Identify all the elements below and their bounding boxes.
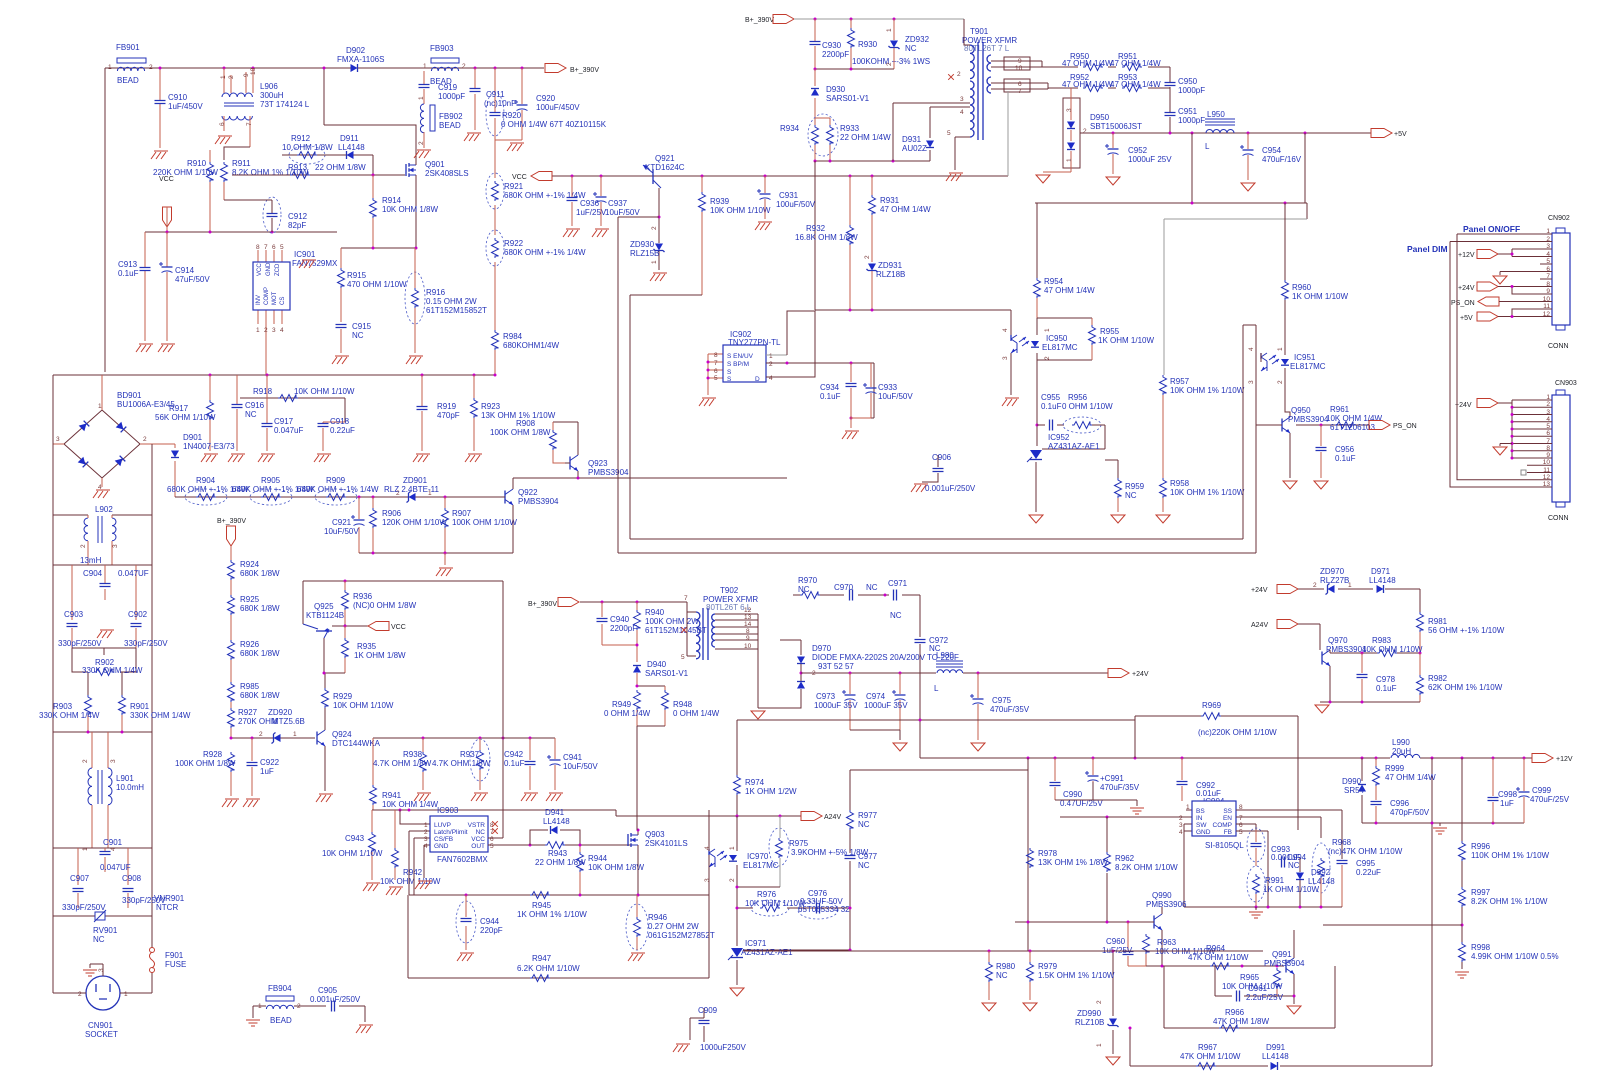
wire R967 row — [1130, 758, 1432, 1066]
svg-text:1K OHM 1/8W: 1K OHM 1/8W — [354, 651, 406, 660]
resistor R975 in ellipse — [769, 816, 869, 887]
svg-text:NC: NC — [476, 829, 486, 836]
svg-text:9: 9 — [746, 635, 750, 642]
svg-text:120K OHM 1/10W: 120K OHM 1/10W — [382, 518, 447, 527]
zener ZD970 — [1313, 567, 1352, 595]
svg-text:4: 4 — [424, 843, 428, 850]
svg-text:1: 1 — [256, 327, 260, 334]
svg-text:EL817MC: EL817MC — [743, 861, 779, 870]
svg-text:C974: C974 — [866, 692, 886, 701]
svg-text:0.22uF: 0.22uF — [1356, 868, 1381, 877]
svg-text:CS/FB: CS/FB — [434, 836, 453, 843]
svg-text:100uF/50V: 100uF/50V — [776, 200, 816, 209]
svg-text:220pF: 220pF — [480, 926, 503, 935]
diode D992 — [1296, 858, 1335, 907]
svg-text:0 OHM 1/4W: 0 OHM 1/4W — [604, 709, 651, 718]
diode D930 — [811, 69, 870, 118]
svg-text:0 OHM 1/4W: 0 OHM 1/4W — [673, 709, 720, 718]
resistor R966 — [1213, 1008, 1269, 1032]
svg-text:C999: C999 — [1532, 786, 1552, 795]
diode D911 — [338, 134, 365, 159]
svg-text:0.1uF: 0.1uF — [1041, 402, 1062, 411]
ground C943 — [363, 883, 380, 891]
shunt IC971 — [728, 939, 850, 985]
resistor R952 — [1062, 73, 1113, 92]
svg-text:RLZ18B: RLZ18B — [876, 270, 905, 279]
svg-text:680K 1/8W: 680K 1/8W — [240, 604, 280, 613]
svg-text:11: 11 — [1543, 303, 1550, 310]
svg-text:VNR901: VNR901 — [154, 894, 185, 903]
wire R997 tap — [1323, 924, 1462, 926]
svg-text:Q924: Q924 — [332, 730, 352, 739]
T901 pins 9 10 box — [991, 57, 1042, 72]
svg-text:C921: C921 — [332, 518, 352, 527]
svg-text:T902: T902 — [720, 586, 739, 595]
svg-text:+C991: +C991 — [1100, 774, 1124, 783]
wire +12V rail — [920, 757, 1532, 759]
capacitor C913 — [118, 232, 151, 341]
svg-text:B+_390V: B+_390V — [570, 67, 599, 74]
svg-text:IC903: IC903 — [437, 806, 459, 815]
no connect marker CN903 pin11 — [1521, 470, 1526, 475]
capacitor C922 — [247, 738, 280, 796]
svg-text:65T065334 32: 65T065334 32 — [798, 905, 850, 914]
capacitor C908 — [122, 874, 166, 908]
svg-text:Q950: Q950 — [1291, 406, 1311, 415]
svg-text:47 OHM 1/4W: 47 OHM 1/4W — [1044, 286, 1095, 295]
svg-text:2: 2 — [886, 62, 893, 66]
svg-text:IC952: IC952 — [1048, 433, 1070, 442]
resistor R978 — [1027, 848, 1109, 868]
wire IC902 pin1 loop — [766, 354, 787, 356]
svg-text:FB: FB — [1224, 829, 1232, 836]
wire C973 C974 gnd — [850, 730, 900, 740]
svg-text:5: 5 — [490, 843, 494, 850]
capacitor C990 — [1050, 758, 1104, 808]
svg-text:R939: R939 — [710, 197, 730, 206]
svg-text:R949: R949 — [612, 700, 632, 709]
resistor R983 — [1362, 636, 1423, 657]
svg-text:4.7K OHM 1/8W: 4.7K OHM 1/8W — [432, 759, 491, 768]
resistor R922 in ellipse — [486, 230, 586, 266]
svg-text:2SK408SLS: 2SK408SLS — [425, 169, 469, 178]
svg-text:Panel ON/OFF: Panel ON/OFF — [1463, 224, 1520, 234]
svg-text:0.1uF: 0.1uF — [504, 759, 525, 768]
svg-text:1uF: 1uF — [1500, 799, 1514, 808]
svg-text:C912: C912 — [288, 212, 308, 221]
svg-text:2: 2 — [418, 141, 425, 145]
ground C913 — [136, 344, 153, 352]
ground R958 — [1156, 515, 1170, 523]
svg-text:13mH: 13mH — [80, 556, 102, 565]
svg-text:C904: C904 — [83, 569, 103, 578]
svg-text:47uF/50V: 47uF/50V — [175, 275, 210, 284]
capacitor C930 — [810, 19, 850, 69]
wire collector feedback y478 — [513, 477, 787, 479]
ground C917 — [258, 454, 275, 462]
resistor R951 — [1110, 52, 1161, 71]
zener ZD931 — [864, 255, 905, 310]
wire IC903 VCC pin6 — [488, 837, 503, 839]
capacitor C901 — [53, 838, 152, 885]
svg-text:NC: NC — [996, 971, 1008, 980]
svg-text:FB901: FB901 — [116, 43, 140, 52]
svg-text:R907: R907 — [452, 509, 472, 518]
ground C937 — [592, 229, 609, 237]
svg-text:BEAD: BEAD — [439, 121, 461, 130]
svg-text:Q921: Q921 — [655, 154, 675, 163]
svg-text:3: 3 — [56, 436, 60, 443]
svg-text:73T 174124 L: 73T 174124 L — [260, 100, 310, 109]
resistor R996 — [1459, 758, 1550, 861]
svg-text:2: 2 — [957, 71, 961, 78]
ground C936 — [563, 229, 580, 237]
net arrow B+_390V mid — [217, 518, 246, 560]
resistor R969 loop — [1135, 701, 1298, 830]
svg-text:0.1uF: 0.1uF — [1376, 684, 1397, 693]
fuse F901 — [150, 948, 187, 973]
resistor R968 in ellipse — [1312, 838, 1403, 907]
svg-text:FAN7602BMX: FAN7602BMX — [437, 855, 488, 864]
svg-text:NC: NC — [905, 44, 917, 53]
svg-text:R977: R977 — [858, 811, 878, 820]
svg-text:C970: C970 — [834, 583, 854, 592]
svg-text:1: 1 — [729, 846, 736, 850]
svg-text:R934: R934 — [780, 124, 800, 133]
zener ZD901 — [384, 476, 440, 503]
svg-text:R960: R960 — [1292, 283, 1312, 292]
ground C911nc — [464, 133, 481, 141]
svg-text:3: 3 — [1066, 108, 1073, 112]
svg-text:47 OHM 1/4W: 47 OHM 1/4W — [880, 205, 931, 214]
capacitor C971 — [888, 579, 920, 637]
diode D990 — [1342, 758, 1366, 823]
svg-text:MOT: MOT — [272, 291, 278, 305]
svg-text:Q923: Q923 — [588, 459, 608, 468]
ground Q970 — [1315, 705, 1329, 713]
svg-text:680K 1/8W: 680K 1/8W — [240, 649, 280, 658]
capacitor C999 electrolytic — [1516, 758, 1570, 823]
svg-text:(nc)47K OHM 1/10W: (nc)47K OHM 1/10W — [1328, 847, 1403, 856]
net arrow PS_ON CN902 — [1451, 297, 1540, 307]
capacitor C976 in ellipse — [798, 889, 850, 919]
svg-text:6: 6 — [1546, 266, 1550, 273]
svg-text:C950: C950 — [1178, 77, 1198, 86]
svg-text:R945: R945 — [532, 901, 552, 910]
ground ZD990 — [1106, 1057, 1120, 1065]
svg-text:C952: C952 — [1128, 146, 1148, 155]
svg-text:330K OHM 1/4W: 330K OHM 1/4W — [130, 711, 191, 720]
svg-text:Panel DIM: Panel DIM — [1407, 244, 1448, 254]
svg-text:470uF/35V: 470uF/35V — [1100, 783, 1140, 792]
svg-text:47K OHM 1/10W: 47K OHM 1/10W — [1180, 1052, 1241, 1061]
svg-text:Q901: Q901 — [425, 160, 445, 169]
svg-text:+12V: +12V — [1556, 756, 1573, 763]
svg-text:R914: R914 — [382, 196, 402, 205]
ground T901 pin5 — [946, 173, 963, 181]
svg-text:FMXA-1106S: FMXA-1106S — [337, 55, 384, 64]
svg-text:0.1uF: 0.1uF — [118, 269, 139, 278]
ground C941 — [546, 793, 563, 801]
ground emitter bus — [436, 553, 453, 576]
svg-text:C901: C901 — [103, 838, 123, 847]
svg-text:R909: R909 — [326, 476, 346, 485]
ground C954 — [1241, 183, 1255, 191]
svg-text:C919: C919 — [438, 83, 458, 92]
resistor R998 — [1459, 907, 1559, 969]
ground C944 — [457, 953, 474, 961]
svg-text:S BP/M: S BP/M — [727, 361, 749, 368]
ground C973 C974 — [893, 743, 907, 751]
svg-text:61T152M15852T: 61T152M15852T — [426, 306, 487, 315]
svg-text:ZCD: ZCD — [275, 263, 281, 276]
svg-text:L906: L906 — [260, 82, 278, 91]
net arrow +24V rail — [1108, 669, 1149, 679]
svg-text:1: 1 — [220, 75, 227, 79]
svg-text:5: 5 — [1546, 423, 1550, 430]
svg-text:R981: R981 — [1428, 617, 1448, 626]
svg-text:R910: R910 — [187, 159, 207, 168]
svg-text:470pF: 470pF — [437, 411, 460, 420]
svg-text:C906: C906 — [932, 453, 952, 462]
ground C942 — [521, 793, 538, 801]
svg-text:10: 10 — [1543, 459, 1551, 466]
svg-text:1: 1 — [108, 64, 112, 71]
svg-text:10K OHM 1% 1/10W: 10K OHM 1% 1/10W — [1170, 488, 1245, 497]
svg-text:12: 12 — [1543, 311, 1551, 318]
svg-text:1K OHM 1% 1/10W: 1K OHM 1% 1/10W — [517, 910, 587, 919]
svg-text:+24V: +24V — [1455, 402, 1472, 409]
svg-text:SARS01-V1: SARS01-V1 — [826, 94, 870, 103]
svg-text:10K OHM 1% 1/10W: 10K OHM 1% 1/10W — [1170, 386, 1245, 395]
capacitor C918 — [318, 417, 356, 451]
wire Q925 collector join — [324, 672, 345, 674]
ground CN901 — [83, 964, 103, 976]
svg-text:IC950: IC950 — [1046, 334, 1068, 343]
resistor R945 — [517, 892, 587, 920]
svg-text:L: L — [1205, 142, 1210, 151]
ground C952 — [1106, 177, 1120, 185]
power flag VCC left — [512, 172, 552, 182]
ground C956 — [1314, 481, 1328, 489]
svg-text:NTCR: NTCR — [156, 903, 178, 912]
svg-text:VCC: VCC — [512, 174, 527, 181]
svg-text:061G152M27852T: 061G152M27852T — [648, 931, 715, 940]
svg-text:RLZ10B: RLZ10B — [1075, 1018, 1104, 1027]
resistor R941 — [370, 738, 439, 810]
dual diode D950 — [1043, 88, 1142, 172]
svg-text:10uF/50V: 10uF/50V — [324, 527, 359, 536]
svg-text:4: 4 — [1546, 251, 1550, 258]
svg-text:R932: R932 — [806, 224, 826, 233]
ground C903 C902 — [97, 630, 114, 638]
net arrow +12V — [1532, 754, 1573, 764]
svg-text:F901: F901 — [165, 951, 184, 960]
wire gray PS feed — [1164, 219, 1307, 375]
svg-text:L: L — [934, 684, 939, 693]
capacitor C961 — [1215, 966, 1294, 1002]
svg-text:R918: R918 — [253, 387, 273, 396]
svg-text:R929: R929 — [333, 692, 353, 701]
svg-text:SR54: SR54 — [1344, 786, 1365, 795]
ground C914 — [158, 344, 175, 352]
transformer T902 — [681, 586, 758, 708]
resistor R903 — [39, 695, 100, 732]
svg-text:L902: L902 — [95, 505, 113, 514]
diode D970 top — [780, 640, 959, 677]
ground ZD930 — [650, 273, 667, 281]
opto IC951 — [1248, 347, 1326, 417]
divider chain column x495 — [494, 140, 496, 375]
svg-text:10: 10 — [1543, 296, 1551, 303]
svg-text:R959: R959 — [1125, 482, 1145, 491]
svg-text:VCC: VCC — [159, 176, 174, 183]
capacitor C919 — [418, 71, 465, 104]
capacitor C912 in ellipse — [224, 197, 308, 233]
svg-text:R979: R979 — [1038, 962, 1058, 971]
svg-text:C911: C911 — [486, 90, 505, 99]
svg-text:CONN: CONN — [1548, 515, 1569, 522]
svg-text:0.047uF: 0.047uF — [274, 426, 303, 435]
zener ZD930 — [630, 188, 665, 270]
ground FB902 — [414, 150, 431, 158]
svg-text:3.9KOHM +-5% 1/8W: 3.9KOHM +-5% 1/8W — [791, 848, 869, 857]
capacitor C934 — [820, 363, 857, 428]
ferrite bead FB901 — [108, 43, 153, 85]
capacitor C902 — [124, 610, 168, 648]
svg-text:C996: C996 — [1390, 799, 1410, 808]
svg-text:10K OHM 1/10W: 10K OHM 1/10W — [710, 206, 771, 215]
svg-text:12: 12 — [744, 607, 752, 614]
wire left vertical — [104, 68, 106, 372]
svg-text:ZD932: ZD932 — [905, 35, 930, 44]
svg-text:R938: R938 — [403, 750, 423, 759]
IC IC904 SI-8105 — [1060, 801, 1244, 907]
svg-text:C933: C933 — [878, 383, 898, 392]
svg-text:0.047UF: 0.047UF — [118, 569, 149, 578]
wire R948 bottom — [637, 726, 665, 830]
svg-text:R957: R957 — [1170, 377, 1190, 386]
svg-text:6: 6 — [219, 122, 226, 126]
capacitor C974 electrolytic — [864, 673, 908, 730]
svg-text:C920: C920 — [536, 94, 556, 103]
svg-text:C908: C908 — [122, 874, 142, 883]
svg-text:6: 6 — [1018, 81, 1022, 88]
svg-text:11: 11 — [1543, 467, 1550, 474]
inductor L950 — [1205, 110, 1235, 151]
svg-text:R974: R974 — [745, 778, 765, 787]
svg-text:8.2K OHM 1/10W: 8.2K OHM 1/10W — [1115, 863, 1178, 872]
svg-text:1000uF 35V: 1000uF 35V — [814, 701, 858, 710]
svg-text:LL4148: LL4148 — [543, 817, 570, 826]
svg-text:R940: R940 — [645, 608, 665, 617]
svg-text:3: 3 — [98, 968, 105, 972]
svg-text:4.7K OHM 1/8W: 4.7K OHM 1/8W — [373, 759, 432, 768]
power flag VCC — [159, 176, 174, 232]
diode D991 — [1262, 1043, 1289, 1070]
ground C909 — [673, 1044, 690, 1052]
svg-text:S EN/UV: S EN/UV — [727, 353, 754, 360]
svg-text:1uF/25V: 1uF/25V — [576, 208, 607, 217]
svg-text:C954: C954 — [1262, 146, 1282, 155]
svg-text:5: 5 — [947, 130, 951, 137]
svg-text:22 OHM 1/4W: 22 OHM 1/4W — [840, 133, 891, 142]
svg-text:47 OHM 1/4W: 47 OHM 1/4W — [1110, 80, 1161, 89]
svg-text:1: 1 — [1186, 804, 1190, 811]
resistor R908 — [490, 419, 578, 463]
svg-text:C995: C995 — [1356, 859, 1376, 868]
ground R919 — [413, 454, 430, 462]
capacitor C944 in ellipse — [456, 895, 503, 950]
diode D941 — [530, 808, 580, 845]
svg-text:6: 6 — [714, 368, 718, 375]
svg-text:2: 2 — [1044, 356, 1051, 360]
svg-text:C973: C973 — [816, 692, 836, 701]
resistor R999 — [1373, 758, 1437, 800]
wire Q970 bottom — [1320, 701, 1420, 703]
capacitor C960 — [1102, 922, 1146, 966]
ground R942 — [386, 887, 403, 895]
svg-text:7: 7 — [1546, 438, 1550, 445]
svg-text:RLZ 2.4BTE-11: RLZ 2.4BTE-11 — [384, 485, 440, 494]
connector CN902 — [1540, 215, 1570, 350]
resistor R921 in ellipse — [486, 173, 586, 209]
svg-text:D931: D931 — [902, 135, 922, 144]
svg-text:SS: SS — [1223, 808, 1232, 815]
resistor R976 in ellipse — [736, 890, 849, 916]
ground R980 — [982, 1003, 996, 1011]
svg-text:16.8K OHM 1/8W: 16.8K OHM 1/8W — [795, 233, 858, 242]
resistor R981 — [1417, 612, 1505, 653]
capacitor C954 electrolytic — [1240, 133, 1302, 180]
power flag VCC mid — [332, 622, 406, 632]
svg-text:IN: IN — [1196, 815, 1203, 822]
svg-text:C903: C903 — [64, 610, 84, 619]
svg-text:B+_390V: B+_390V — [745, 17, 774, 24]
svg-text:R921: R921 — [504, 182, 524, 191]
svg-text:300uH: 300uH — [260, 91, 284, 100]
svg-text:1: 1 — [424, 822, 428, 829]
svg-text:470uF/25V: 470uF/25V — [1530, 795, 1570, 804]
transistor Q970 — [1322, 636, 1422, 702]
svg-text:BEAD: BEAD — [270, 1016, 292, 1025]
ground Q991 — [1287, 995, 1301, 1015]
svg-text:LL4148: LL4148 — [338, 143, 365, 152]
resistor R949 — [604, 685, 665, 727]
wire IC904 bottom bus — [1184, 906, 1342, 908]
resistor R905 in ellipse — [232, 476, 314, 505]
ferrite bead FB904 — [253, 984, 326, 1025]
ground R917 — [201, 454, 218, 462]
varistor RV901 — [53, 894, 185, 944]
ground R923 — [465, 454, 482, 462]
resistor R912 in ellipse — [282, 134, 373, 164]
svg-text:1: 1 — [423, 63, 427, 70]
svg-text:2: 2 — [80, 544, 87, 548]
svg-text:C942: C942 — [504, 750, 524, 759]
svg-text:8.2K OHM 1% 1/10W: 8.2K OHM 1% 1/10W — [1471, 897, 1548, 906]
svg-text:A24V: A24V — [1251, 622, 1268, 629]
svg-text:8: 8 — [1546, 445, 1550, 452]
svg-text:C975: C975 — [992, 696, 1012, 705]
svg-text:R936: R936 — [353, 592, 373, 601]
svg-text:R946: R946 — [648, 913, 668, 922]
svg-text:LUVP: LUVP — [434, 822, 451, 829]
svg-text:B+_390V: B+_390V — [217, 518, 246, 525]
svg-text:R954: R954 — [1044, 277, 1064, 286]
svg-text:2200pF: 2200pF — [610, 624, 637, 633]
resistor R944 — [577, 844, 645, 896]
